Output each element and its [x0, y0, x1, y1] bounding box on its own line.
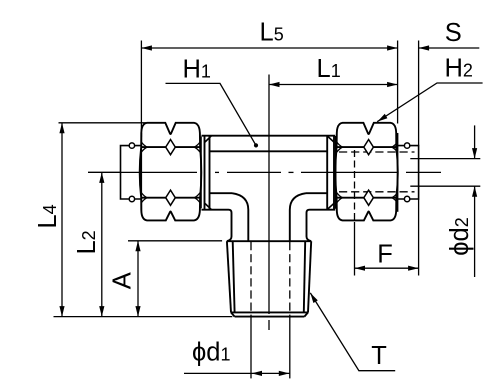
left nut chamfer cusps [141, 142, 200, 203]
dimension S [419, 47, 480, 49]
right sleeve bead circles [404, 143, 409, 148]
branch shoulder right [307, 210, 312, 242]
label L4 (rotated) [34, 204, 62, 228]
branch shoulder left [227, 210, 232, 242]
dimension L1 [269, 84, 398, 86]
label A (rotated) [109, 272, 137, 289]
horizontal axis centerline [88, 171, 441, 173]
thread bore hidden lines (phi d1) [251, 242, 290, 316]
svg-text:F: F [377, 240, 393, 268]
dimension phi d1 [184, 317, 290, 379]
svg-text:A: A [109, 272, 137, 289]
label phi d2 (rotated) [446, 217, 474, 255]
vertical branch centerline [268, 75, 270, 315]
left tube sleeve bracket [121, 146, 142, 199]
male taper thread T [227, 241, 311, 316]
right nut chamfer cusps [337, 142, 398, 203]
right nut hidden bore lines (phi d2) [339, 152, 415, 192]
right nut outline [335, 123, 397, 221]
dimension A [128, 241, 222, 317]
left nut band boundary lines [141, 146, 200, 148]
left sleeve bead circles [129, 143, 134, 148]
right nut band boundary lines [337, 146, 397, 148]
left nut face verticals [140, 133, 142, 212]
svg-text:S: S [445, 19, 462, 47]
right nut diamonds [364, 140, 374, 155]
dimension L2 [88, 172, 121, 316]
body barrel (hex) [202, 136, 336, 210]
left nut outline [140, 123, 202, 221]
right nut face verticals [335, 136, 337, 209]
bottom reference line [54, 316, 233, 318]
right tube sleeve [398, 146, 419, 199]
dimension F [355, 150, 419, 276]
body collar left (double vertical lines) [205, 135, 210, 210]
dimension L5 [141, 41, 397, 138]
branch neck with fillets [232, 193, 306, 241]
svg-text:T: T [371, 342, 387, 370]
left nut diamonds [166, 140, 176, 155]
barrel corner chamfers [205, 136, 335, 210]
dimension L4 [59, 123, 147, 317]
label L2 (rotated) [73, 230, 101, 254]
body collar right [327, 135, 334, 210]
dimension phi d2 [410, 125, 480, 277]
